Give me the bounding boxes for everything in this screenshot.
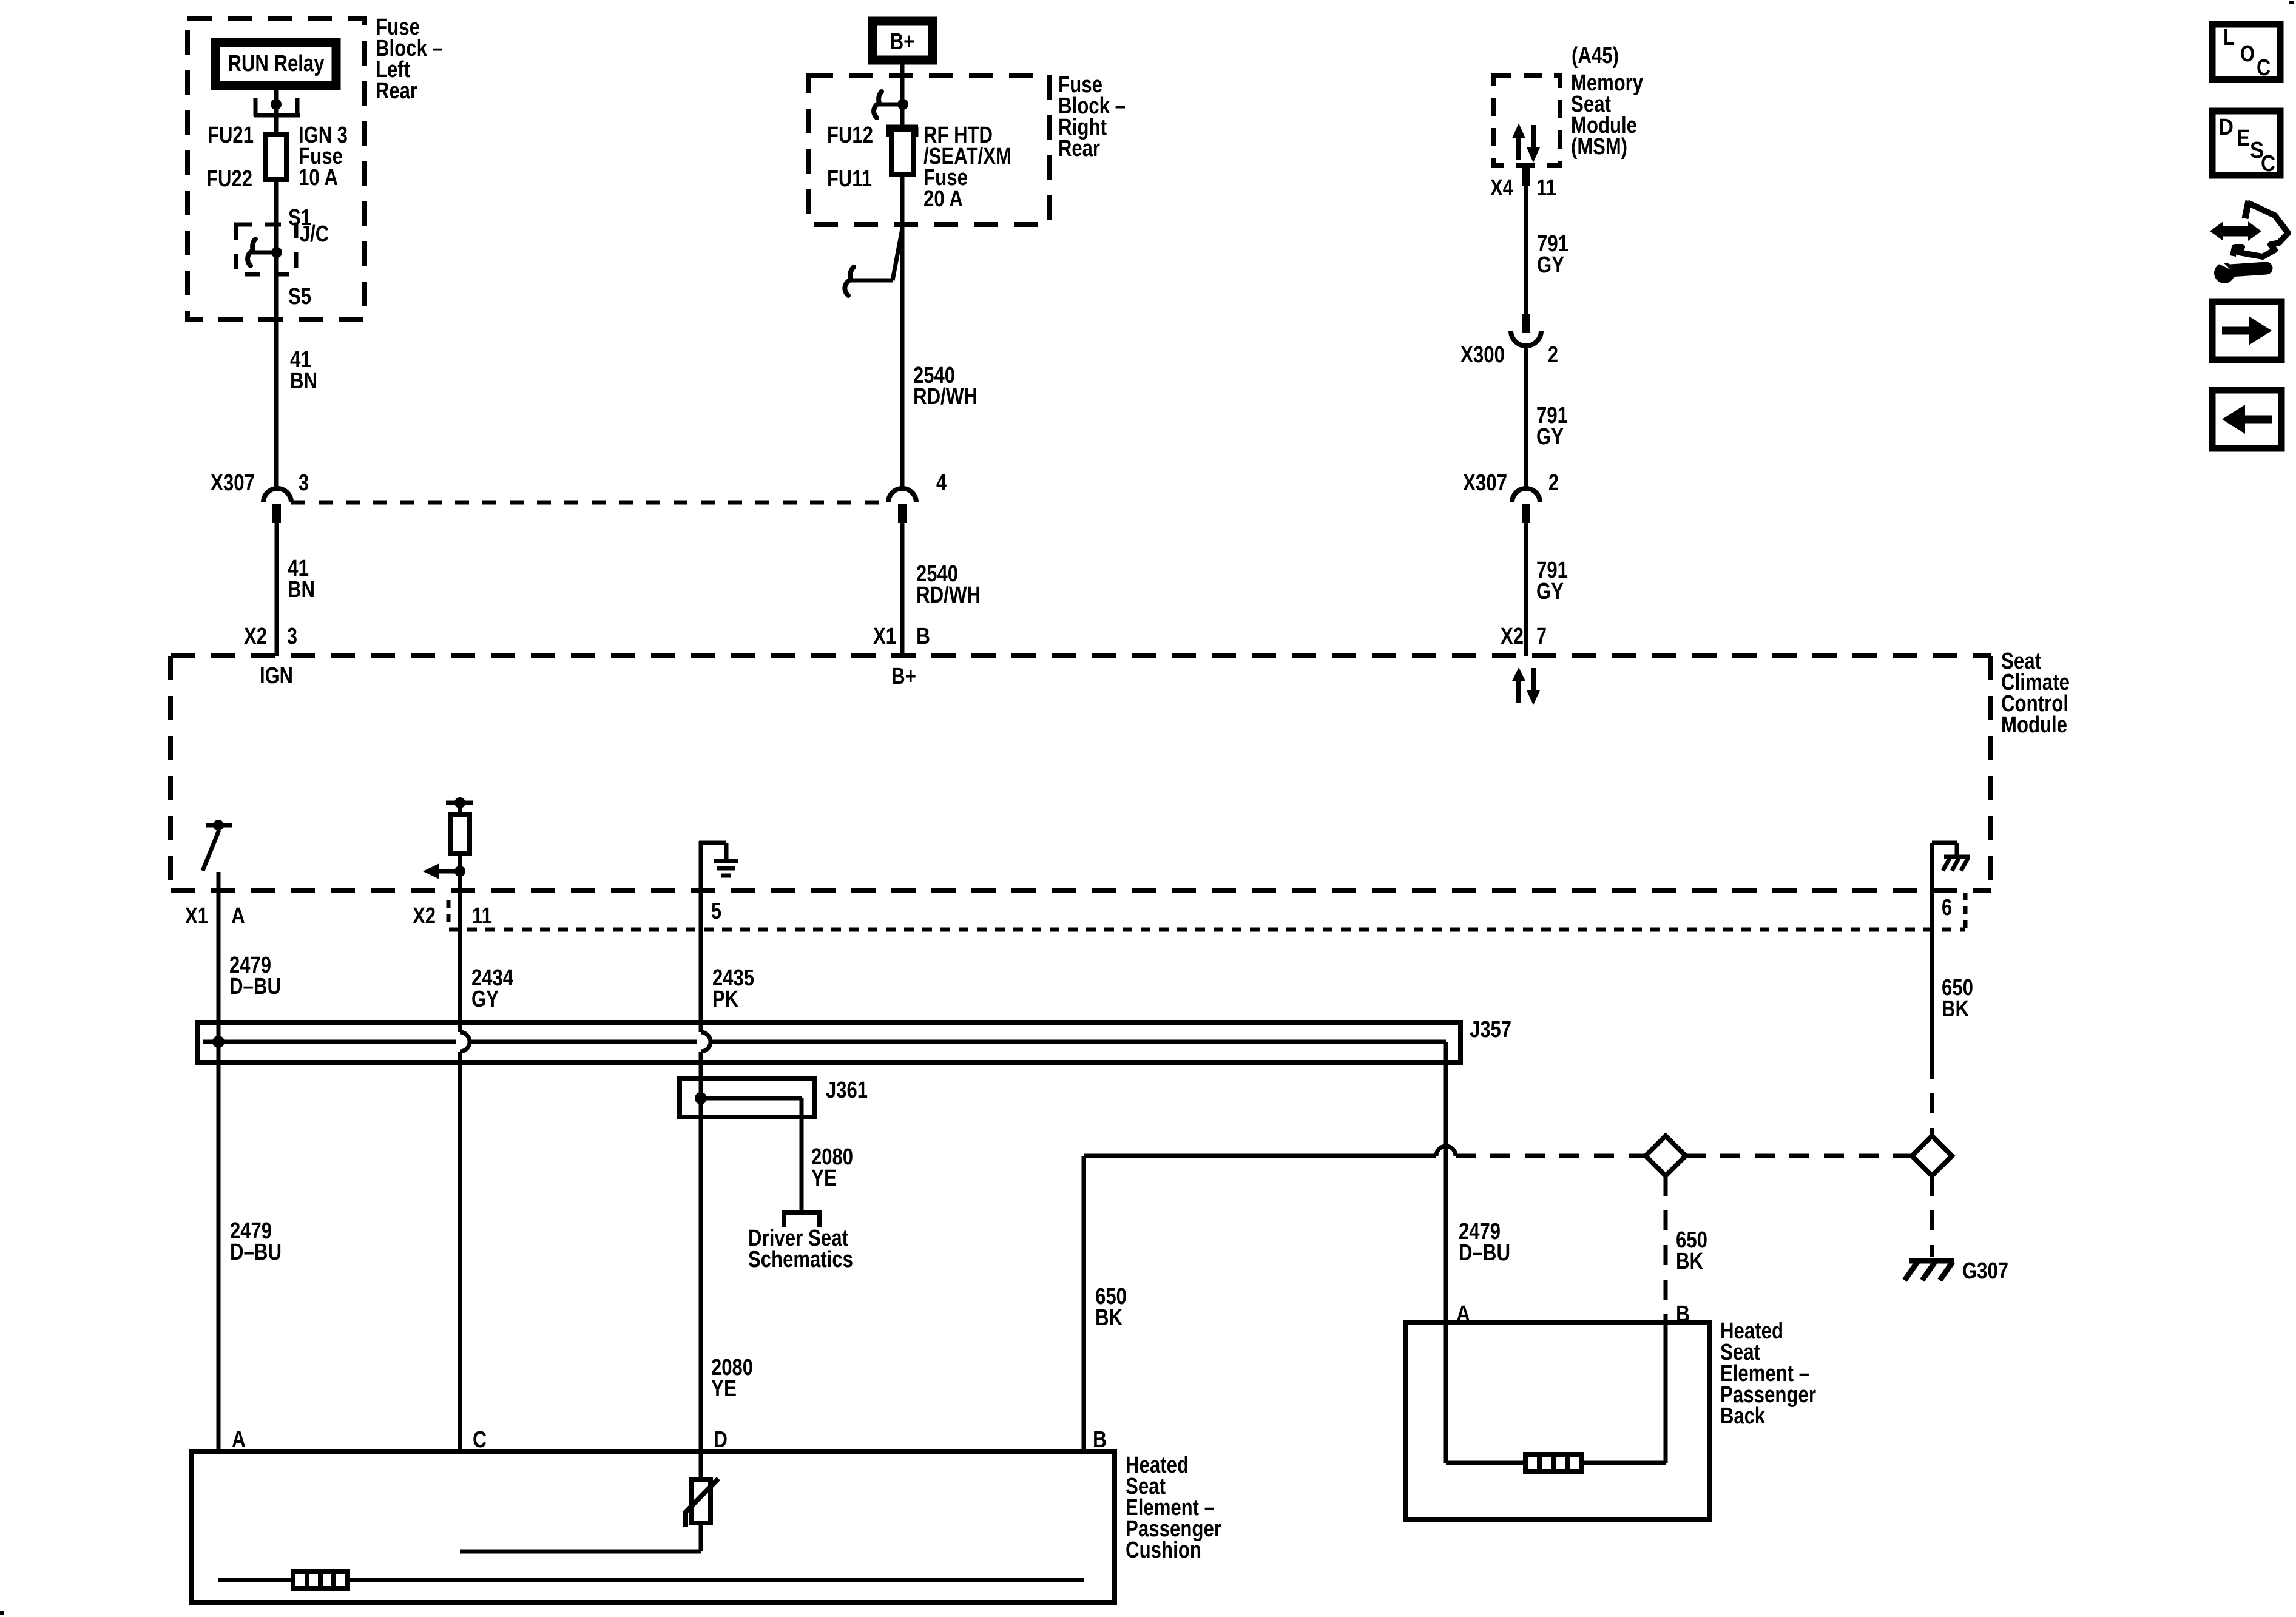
fuse block left rear (dashed outline): [187, 18, 365, 320]
heated seat element passenger cushion label: [1126, 1453, 1221, 1563]
seat climate control module label: [2001, 649, 2070, 738]
wire from RUN Relay to fuse FU21: [274, 90, 279, 135]
wire MSM to X300: [1524, 186, 1528, 314]
cushion element A-B link: [218, 1578, 1084, 1582]
wire label 2479 D-BU (right): [1459, 1219, 1510, 1266]
svg-text:D–BU: D–BU: [1459, 1240, 1510, 1266]
back element pin B wire: [1664, 1323, 1668, 1463]
back element A-B link: [1446, 1461, 1666, 1465]
svg-text:X1: X1: [873, 624, 896, 649]
MSM up/down arrows: [1512, 123, 1540, 163]
splice hook in J/C: [248, 239, 255, 266]
svg-text:PK: PK: [712, 987, 738, 1012]
fuse FU12/FU11 RF HTD/SEAT/XM 20 A: [891, 129, 913, 174]
wire label 2479 D-BU (lower left): [230, 1218, 282, 1265]
in-line connector X307 pin 4: [888, 488, 916, 523]
svg-text:GY: GY: [1536, 424, 1564, 450]
off-page connector fork to driver seat schematics: [782, 1213, 822, 1227]
wire label 791 GY lower: [1536, 558, 1568, 604]
in-line diamond connector 2: [1912, 1136, 1952, 1176]
650 BK dashed run to diamond 1: [1456, 1154, 1646, 1158]
svg-text:C: C: [473, 1427, 487, 1453]
svg-text:FU21: FU21: [208, 123, 254, 148]
svg-text:Rear: Rear: [376, 78, 417, 104]
wire X300 to X307-2: [1524, 345, 1528, 491]
svg-text:20 A: 20 A: [923, 186, 963, 212]
icon back arrow box: [2212, 390, 2281, 448]
fuse holder clip: [254, 98, 300, 116]
page artifact dot bottom left: [0, 1611, 4, 1615]
memory seat module label: [1571, 70, 1643, 160]
svg-text:E: E: [2237, 126, 2250, 151]
SCCM internal ground (pin 5): [699, 843, 738, 876]
wire label 650 BK (right): [1942, 975, 1973, 1022]
pin 6 connector tick: [1963, 893, 1968, 930]
svg-text:FU22: FU22: [206, 166, 252, 192]
X2 connector dotted line pins 11-5-6: [449, 928, 1965, 932]
ground G307 symbol: [1905, 1261, 1954, 1280]
wire label 2080 YE (branch): [811, 1144, 853, 1191]
wire D below thermistor: [699, 1523, 703, 1551]
svg-text:YE: YE: [711, 1376, 737, 1402]
svg-text:FU11: FU11: [827, 166, 872, 192]
J357 bus line with hops: [203, 1042, 1446, 1062]
svg-text:B+: B+: [890, 29, 915, 55]
wire 650 BK cushion pin B riser: [1082, 1156, 1086, 1451]
splice dot in J/C: [271, 247, 282, 258]
SCCM internal switch (X1-A): [203, 820, 232, 871]
wire 2435 hop over J357 bus: [701, 1032, 711, 1052]
svg-text:X2: X2: [413, 903, 436, 929]
svg-text:BK: BK: [1676, 1249, 1703, 1274]
cushion heater element symbol: [293, 1571, 348, 1588]
fuse block right rear (dashed outline): [809, 75, 1049, 224]
svg-text:Module: Module: [2001, 712, 2067, 738]
splice pack J357 box: [198, 1022, 1460, 1062]
svg-text:X300: X300: [1460, 342, 1505, 368]
svg-text:BN: BN: [290, 368, 317, 394]
SCCM X2-7 up/down arrows: [1512, 667, 1540, 705]
svg-text:GY: GY: [1536, 579, 1564, 604]
tap hook lower: [845, 267, 854, 295]
svg-text:B: B: [916, 624, 930, 649]
J357 junction dot: [212, 1036, 225, 1048]
wire 2479 D-BU from J357 to back element pin A: [1444, 1062, 1448, 1323]
wire 2435 PK from pin 5 to J361 and cushion pin D: [699, 841, 703, 1032]
svg-text:A: A: [231, 903, 245, 929]
X2 connector tick: [447, 900, 451, 928]
svg-text:7: 7: [1536, 624, 1547, 649]
tap branch line: [879, 103, 903, 107]
J361 branch line: [701, 1098, 802, 1213]
wire label 650 BK (mid): [1676, 1227, 1707, 1274]
in-line connector X307 pin 3: [263, 488, 291, 523]
svg-text:(A45): (A45): [1572, 43, 1619, 69]
svg-text:RD/WH: RD/WH: [916, 582, 981, 608]
SCCM internal resistor (X2-11): [446, 797, 473, 854]
svg-text:RUN Relay: RUN Relay: [228, 51, 325, 76]
wire 650 BK dashed diamond1 to back element pin B: [1664, 1176, 1668, 1323]
svg-text:3: 3: [299, 470, 309, 496]
svg-text:D: D: [714, 1427, 728, 1453]
icon LOC box: [2212, 24, 2280, 81]
svg-text:(MSM): (MSM): [1571, 134, 1627, 160]
tap branch line lower: [851, 279, 893, 283]
svg-text:11: 11: [472, 903, 492, 929]
svg-text:D–BU: D–BU: [229, 974, 281, 999]
back element pin A wire: [1444, 1323, 1448, 1463]
svg-text:3: 3: [287, 624, 297, 649]
svg-text:YE: YE: [811, 1166, 837, 1191]
wire 650 BK dashed diamond2 to G307: [1930, 1176, 1934, 1257]
svg-text:G307: G307: [1962, 1258, 2008, 1284]
svg-text:RD/WH: RD/WH: [913, 384, 977, 410]
svg-text:4: 4: [936, 470, 947, 496]
wire 2479 D-BU from switch through J357 to cushion pin A: [217, 872, 221, 1451]
in-line connector X300 pin 2: [1511, 314, 1541, 346]
junction dot B+ tap: [897, 99, 908, 110]
wire label 2479 D-BU: [229, 953, 281, 999]
SCCM internal chassis ground (pin 6): [1932, 843, 1970, 871]
heated seat element passenger back label: [1720, 1318, 1816, 1429]
svg-text:FU12: FU12: [827, 123, 873, 148]
splice branch line in J/C: [252, 251, 277, 255]
svg-text:Rear: Rear: [1058, 136, 1100, 161]
svg-text:2: 2: [1548, 342, 1558, 368]
seat climate control module dashed box: [171, 656, 1991, 890]
label RF HTD /SEAT/XM Fuse 20 A: [923, 123, 1011, 212]
svg-text:O: O: [2240, 41, 2255, 67]
650 BK dashed run diamond1 to diamond2: [1686, 1154, 1912, 1158]
fuse block right rear label: [1058, 72, 1126, 161]
svg-text:S5: S5: [288, 284, 311, 309]
wire label 2080 YE (pin D): [711, 1355, 753, 1402]
wire 2434 GY from resistor through J357 to cushion pin C: [458, 854, 462, 1032]
svg-text:10 A: 10 A: [299, 165, 338, 191]
splice J361 box: [680, 1078, 814, 1117]
wire fuse FU11 down to X307 pin 4: [900, 174, 905, 491]
svg-text:X307: X307: [211, 470, 255, 496]
wire label 650 BK (left): [1095, 1284, 1127, 1331]
svg-text:X307: X307: [1463, 470, 1507, 496]
tap diagonal below fuse block: [893, 229, 902, 280]
junction connector J/C dashed box: [236, 224, 296, 274]
svg-text:5: 5: [711, 899, 721, 924]
650 BK hop over 2479 wire: [1436, 1146, 1456, 1156]
svg-text:11: 11: [1536, 175, 1556, 201]
svg-text:X2: X2: [1501, 624, 1524, 649]
wire 650 BK dashed from pin 6 down to diamond 2: [1930, 1059, 1934, 1136]
fuse block left rear label: [376, 15, 443, 104]
tap hook: [874, 92, 882, 118]
icon forward arrow box: [2212, 302, 2281, 360]
wire label 791 GY top: [1537, 231, 1568, 278]
svg-text:2: 2: [1548, 470, 1559, 496]
svg-text:X1: X1: [185, 903, 208, 929]
cushion C-D link: [460, 1550, 701, 1554]
wire 650 BK from pin 6 (solid portion): [1930, 843, 1934, 1059]
svg-text:Back: Back: [1720, 1403, 1766, 1429]
svg-text:BK: BK: [1942, 996, 1969, 1022]
wire X307-2 to SCCM X2-7: [1524, 523, 1528, 656]
wire label 2434 GY: [471, 965, 513, 1012]
svg-text:B+: B+: [891, 664, 916, 689]
wire label 41 BN upper: [290, 347, 317, 394]
svg-text:C: C: [2257, 55, 2271, 81]
fuse FU21/FU22 IGN 3 Fuse 10 A: [265, 135, 286, 180]
wire 650 BK horizontal solid run: [1084, 1154, 1436, 1158]
label Driver Seat Schematics: [748, 1226, 853, 1272]
icon jump-to-wiring (arrow and wrench): [2210, 201, 2288, 283]
svg-text:B: B: [1093, 1427, 1107, 1453]
label IGN 3 Fuse 10 A: [299, 123, 348, 191]
svg-text:GY: GY: [1537, 252, 1564, 278]
page artifact dot top right: [2289, 1, 2294, 4]
svg-text:BK: BK: [1095, 1305, 1123, 1331]
svg-text:IGN: IGN: [260, 663, 293, 689]
svg-text:J/C: J/C: [300, 221, 329, 247]
svg-text:C: C: [2261, 151, 2275, 177]
in-line diamond connector 1: [1646, 1136, 1686, 1176]
MSM X4 pin bar: [1522, 166, 1530, 186]
svg-text:6: 6: [1942, 895, 1952, 920]
icon DESC box: [2212, 111, 2280, 177]
wire X307-3 to SCCM X2-3: [275, 523, 279, 656]
svg-text:Cushion: Cushion: [1126, 1538, 1201, 1563]
svg-text:D–BU: D–BU: [230, 1240, 282, 1265]
svg-text:X2: X2: [244, 624, 267, 649]
wire B+ into fuse block: [900, 64, 905, 129]
RUN Relay terminal box: [215, 42, 336, 86]
wire label 2540 RD/WH upper: [913, 363, 977, 410]
X307 connector dotted line pin3 to pin4: [291, 501, 888, 505]
fuse holder clip FU12: [886, 127, 918, 137]
wire fuse to S5 through J/C: [274, 180, 279, 491]
cushion thermistor symbol: [686, 1479, 718, 1527]
B+ terminal box: [873, 21, 933, 60]
svg-text:J361: J361: [826, 1078, 868, 1103]
wire label 2540 RD/WH lower: [916, 561, 981, 608]
svg-text:X4: X4: [1490, 175, 1513, 201]
memory seat module dashed box: [1493, 76, 1560, 166]
junction dot S1 feed: [271, 99, 282, 110]
svg-text:BN: BN: [288, 577, 315, 603]
SCCM internal wiper arrow: [423, 863, 465, 879]
svg-text:A: A: [232, 1427, 246, 1453]
wire X307-4 to SCCM X1-B: [900, 523, 905, 656]
wire 2434 hop over J357 bus: [460, 1032, 470, 1052]
svg-text:D: D: [2218, 115, 2234, 140]
svg-text:L: L: [2223, 25, 2235, 50]
heated seat element passenger cushion box: [191, 1451, 1115, 1602]
J361 junction dot: [695, 1092, 707, 1104]
svg-text:GY: GY: [471, 987, 499, 1012]
wire label 41 BN lower: [288, 556, 315, 603]
wire label 791 GY middle: [1536, 403, 1568, 450]
svg-text:J357: J357: [1470, 1017, 1511, 1042]
heated seat element passenger back box: [1406, 1323, 1710, 1519]
wire label 2435 PK: [712, 965, 754, 1012]
in-line connector X307 pin 2: [1512, 488, 1540, 523]
back heater element symbol: [1525, 1454, 1582, 1471]
svg-text:Schematics: Schematics: [748, 1247, 853, 1272]
